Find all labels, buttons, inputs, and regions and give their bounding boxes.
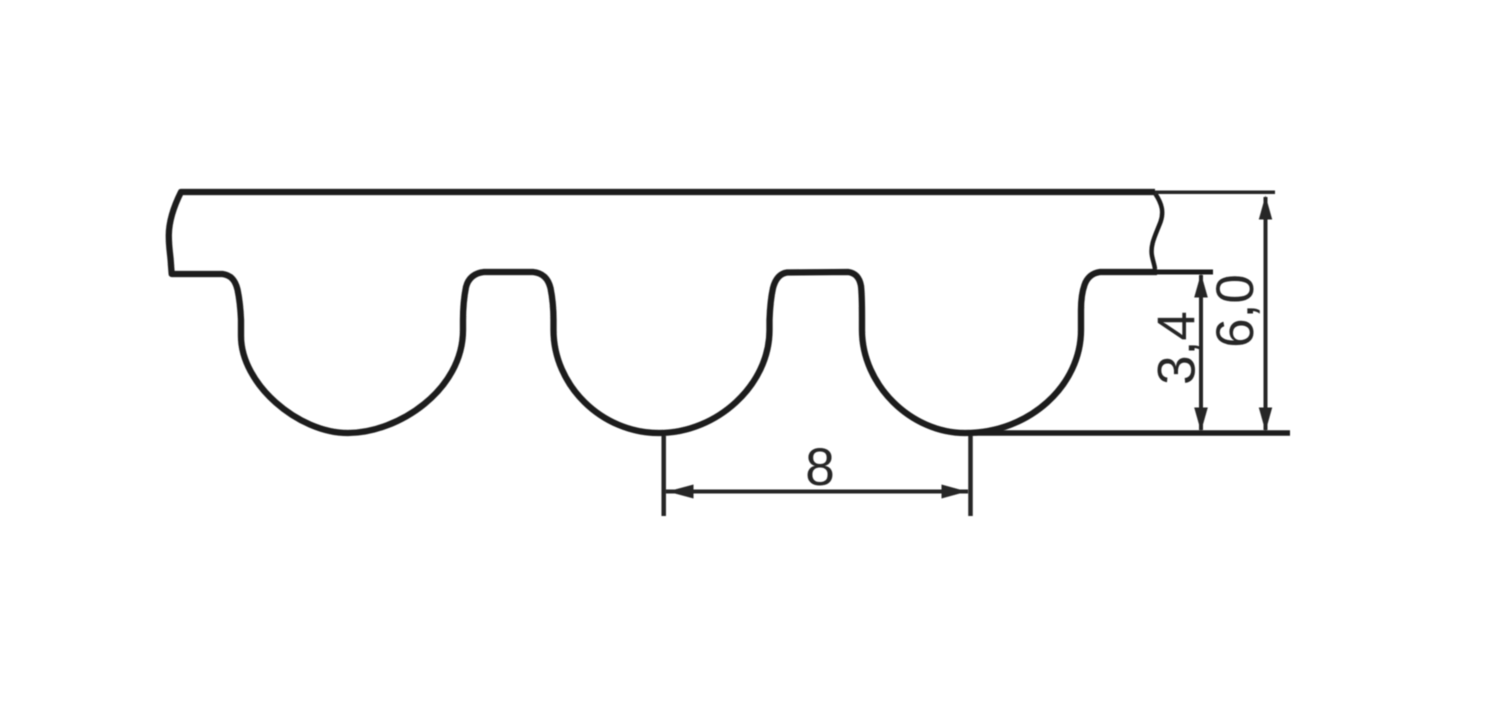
pitch dimension line (8) xyxy=(666,490,968,494)
bottom reference baseline xyxy=(972,430,1290,436)
tooth height dimension line (3,4) xyxy=(1199,275,1203,430)
bottom arrowhead of 3,4 dimension xyxy=(1194,408,1208,432)
right arrowhead of pitch dimension xyxy=(942,485,968,499)
thin extension of top line to the right xyxy=(1155,190,1275,194)
bottom arrowhead of 6,0 dimension xyxy=(1259,408,1272,432)
svg-text:6,0: 6,0 xyxy=(1206,274,1265,348)
break line (squiggle) at right belt end xyxy=(1152,194,1163,269)
extension line right of pitch dimension xyxy=(968,436,973,516)
belt thickness dimension line (6,0) xyxy=(1264,197,1268,430)
svg-text:8: 8 xyxy=(805,438,834,497)
land extension line to the right xyxy=(1157,270,1213,275)
belt back top line + left edge + toothed underside profile xyxy=(169,192,1157,433)
extension line left of pitch dimension xyxy=(661,436,666,516)
left arrowhead of pitch dimension xyxy=(668,485,694,499)
top arrowhead of 3,4 dimension xyxy=(1194,274,1208,298)
top arrowhead of 6,0 dimension xyxy=(1259,196,1272,220)
svg-text:3,4: 3,4 xyxy=(1148,311,1207,385)
